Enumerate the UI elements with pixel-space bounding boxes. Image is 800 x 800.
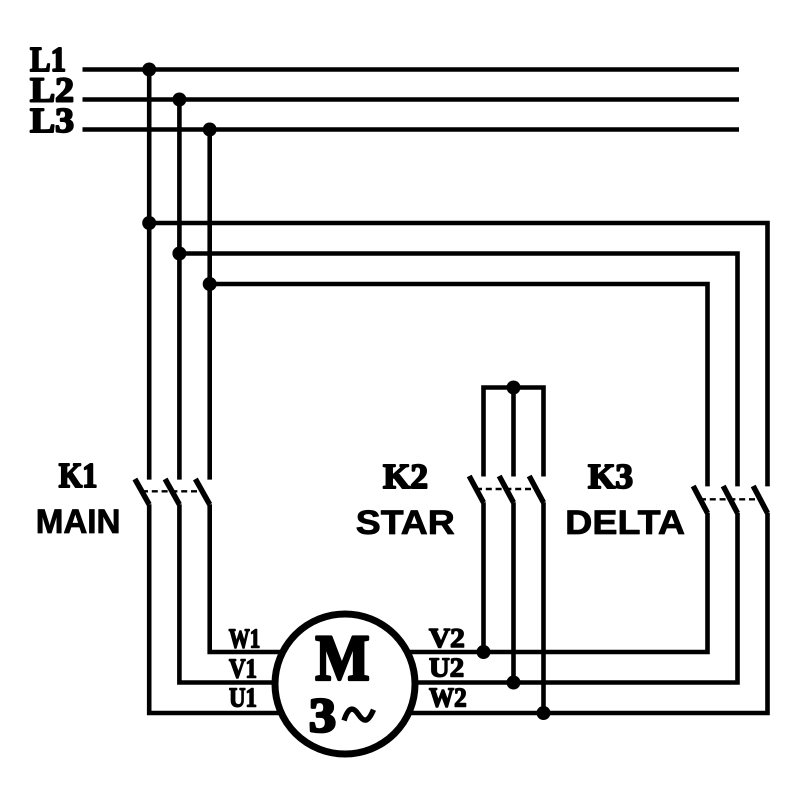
junction dot branch L1 [142,216,156,230]
wire L3 drop to K1 pole 3 [207,130,212,480]
junction dot node W2 [537,706,551,720]
svg-text:K2: K2 [383,457,428,496]
wire L2 phase line [83,97,740,102]
wire K2 star-point bridge [484,388,544,477]
wire branch L3 to K3 pole 1 (inner loop) [210,284,708,486]
contactor K1 blade pole 1 [135,479,149,505]
svg-text:L3: L3 [30,101,74,140]
junction dot L2 [172,93,186,107]
svg-text:V2: V2 [429,623,465,653]
junction dot L3 [203,123,217,137]
junction dot node V2 [477,645,491,659]
svg-text:U2: U2 [429,653,464,683]
svg-text:K1: K1 [59,456,98,495]
wire branch L2 to K3 pole 2 (middle loop) [179,254,737,487]
junction dot branch L2 [172,247,186,261]
wire L1 phase line [83,67,740,72]
wire branch L1 to K3 pole 3 (outer loop) [149,223,767,486]
contactor K3 blade pole 3 [753,486,767,513]
wire K2 star-point center stub [511,388,516,477]
tilde AC symbol [344,709,374,720]
wire K1 pole 3 to motor W1 [210,504,300,652]
motor M1 circle [275,614,415,754]
linkage dashes K1 [142,490,203,492]
svg-text:STAR: STAR [356,504,455,542]
svg-text:W2: W2 [429,682,467,712]
wire K2 pole 3 to node W2 [541,502,546,713]
wire L2 drop to K1 pole 2 [177,100,182,480]
linkage dashes K3 [700,498,761,500]
svg-text:W1: W1 [229,624,260,654]
linkage dashes K2 [476,488,537,490]
wire K1 pole 2 to motor V1 [179,504,300,682]
contactor K1 blade pole 3 [195,479,209,505]
contactor K2 blade pole 1 [469,476,483,503]
contactor K2 blade pole 3 [529,476,543,503]
wire motor U2 to K3 pole 2 [390,513,738,683]
junction dot star point [507,381,521,395]
svg-text:MAIN: MAIN [36,503,121,541]
svg-text:DELTA: DELTA [565,504,685,542]
wire K2 pole 2 to node U2 [511,502,516,682]
svg-text:3: 3 [309,688,336,743]
junction dot node U2 [507,676,521,690]
svg-text:U1: U1 [229,683,257,713]
contactor K3 blade pole 1 [693,486,707,513]
contactor K1 blade pole 2 [165,479,179,505]
junction dot L1 [142,63,156,77]
wire K2 pole 1 to node V2 [481,502,486,652]
svg-text:M: M [316,623,370,695]
junction dot branch L3 [203,277,217,291]
svg-text:K3: K3 [588,457,633,496]
wire L1 drop to K1 pole 1 [147,70,152,480]
wire motor V2 to K3 pole 1 [390,513,708,652]
wire L3 phase line [83,127,740,132]
contactor K3 blade pole 2 [723,486,737,513]
wire motor W2 to K3 pole 3 [390,513,768,713]
contactor K2 blade pole 2 [499,476,513,503]
wire K1 pole 1 to motor U1 [149,504,300,713]
svg-text:V1: V1 [229,654,257,684]
